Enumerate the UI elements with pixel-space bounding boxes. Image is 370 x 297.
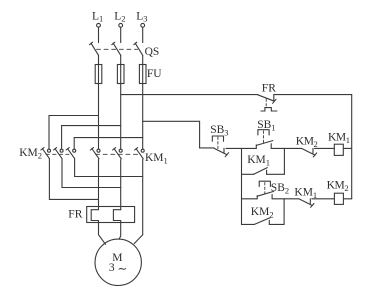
wire motor lead C [142,159,144,235]
wire QS to FU pole 1 [98,55,100,64]
wire SB1 to node B [271,147,284,149]
contactor KM1 main contact 2 [113,148,123,159]
wire right rail [351,95,353,199]
svg-text:L1: L1 [92,11,103,24]
coil KM1 [328,131,352,155]
wire motor lead A [98,159,100,210]
wire SB2 to node C [272,198,284,200]
contactor KM2 interlock contact (NC) [284,135,334,157]
wire phase C down from FU [142,84,144,150]
svg-text:L3: L3 [136,11,147,24]
contactor KM2 main contact 2 [54,148,64,159]
wire QS to FU pole 2 [120,55,122,64]
contactor KM1 interlock contact (NC) [284,186,334,207]
thermal relay FR heater box [87,207,135,223]
terminal L1 [97,23,101,27]
wire node B vertical [283,148,285,174]
FR heater element 1 [91,210,98,223]
svg-text:QS: QS [145,46,160,58]
wire control feed from phase B to FR [121,94,258,96]
fuse FU 1 [95,65,102,84]
wire L3 to QS [142,27,144,42]
contactor KM2 main contact 1 [41,148,51,159]
svg-text:KM2: KM2 [327,179,349,193]
svg-text:KM1: KM1 [247,154,270,168]
svg-text:3 ∼: 3 ∼ [109,262,127,276]
switch QS pole 2 [112,42,121,55]
thermal relay FR contact (control, NC) [258,83,277,111]
pushbutton SB2 (start rev, NO) [257,181,289,199]
wire QS to FU pole 3 [142,55,144,64]
coil KM2 [327,179,352,204]
wire row1: node A to SB1 [242,147,257,149]
wire SB3 to node A [226,147,242,149]
wire motor lead B [120,159,122,210]
svg-text:FR: FR [262,83,276,95]
contactor KM2 main contact 3 [66,148,76,159]
wire branch phase C to KM2 pole 3 [74,138,143,149]
FR heater element 2 [113,210,120,223]
pushbutton SB3 (stop, NC) [210,124,228,157]
contactor KM2 aux contact (self-hold, NO) [242,206,285,225]
svg-text:SB2: SB2 [271,182,289,196]
wire branch phase A to KM2 pole 1 [49,116,99,149]
svg-text:FR: FR [68,209,82,221]
switch QS pole 1 [90,42,99,55]
switch QS pole 3 [134,42,143,55]
motor M [95,239,141,285]
wire L2 to QS [120,27,122,42]
wire control tap from phase C [143,121,214,148]
QS mechanical link (dashed) [97,48,138,50]
contactor KM1 aux contact (self-hold, NO) [242,154,285,174]
wire KM2 output 1 crossover [49,159,98,200]
svg-text:SB1: SB1 [257,119,275,133]
svg-text:FU: FU [147,68,162,80]
wire node C vertical [283,199,285,225]
svg-text:L2: L2 [114,11,125,24]
wire heater 2 to motor [119,223,121,239]
wire phase A down from FU [98,84,100,150]
wire FR to right rail [274,94,352,96]
wire KM2 output 3 crossover [75,159,143,177]
terminal L2 [119,23,123,27]
wire lead C to motor [134,235,143,244]
svg-text:KM1: KM1 [145,152,168,166]
wire KM2 output 2 crossover [62,159,121,188]
contactor KM1 main contact 1 [90,148,100,159]
wire heater 1 to motor [99,223,106,245]
pushbutton SB1 (start fwd, NO) [256,119,275,149]
wire row2: node A to SB2 [242,198,258,200]
contactor KM1 main contact 3 [135,148,145,159]
fuse FU 3 [139,65,146,84]
fuse FU 2 [117,65,124,84]
svg-text:KM2: KM2 [19,147,42,161]
wire phase B down from FU [120,84,122,150]
svg-text:KM1: KM1 [328,131,350,145]
svg-text:SB3: SB3 [210,124,228,138]
wire branch phase B to KM2 pole 2 [62,126,121,149]
KM1 mechanical link (dashed) [96,153,139,155]
terminal L3 [141,23,145,27]
svg-text:KM2: KM2 [296,135,318,149]
wire L1 to QS [98,27,100,42]
KM2 mechanical link (dashed) [46,153,69,155]
wire node A vertical [241,148,243,224]
svg-text:KM1: KM1 [294,186,317,200]
